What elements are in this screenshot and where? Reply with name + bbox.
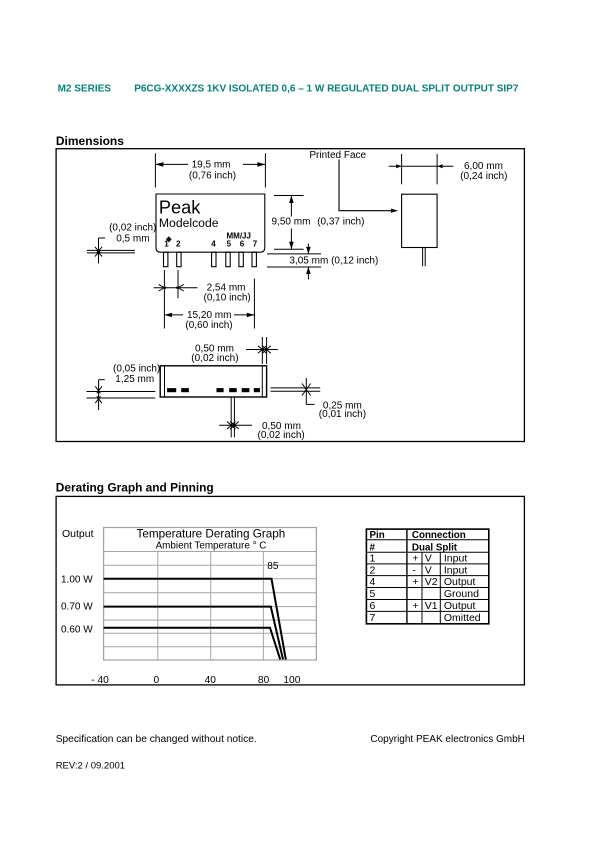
- dim 0,25mm: [271, 378, 321, 404]
- dim 0,50mm top (pin width): [246, 337, 278, 364]
- svg-text:(0,02 inch): (0,02 inch): [109, 223, 156, 234]
- dim 1,25mm: [87, 380, 156, 410]
- pin numbers: [164, 240, 258, 249]
- svg-text:0,5 mm: 0,5 mm: [116, 234, 149, 245]
- svg-text:V2: V2: [425, 576, 438, 588]
- svg-text:4: 4: [211, 240, 216, 249]
- pin 1 top view: [164, 252, 168, 267]
- svg-text:3,05 mm (0,12 inch): 3,05 mm (0,12 inch): [289, 255, 378, 266]
- side view body: [402, 194, 438, 247]
- svg-text:P6CG-XXXXZS: P6CG-XXXXZS: [134, 83, 204, 94]
- pin 4 top view: [212, 252, 216, 267]
- pin1 marker diamond: [166, 236, 172, 242]
- derating outline box: [56, 496, 524, 685]
- svg-text:1KV ISOLATED 0,6 – 1 W REGULAT: 1KV ISOLATED 0,6 – 1 W REGULATED DUAL SP…: [207, 83, 519, 94]
- svg-text:6: 6: [240, 240, 245, 249]
- package top-view outline: [156, 194, 265, 252]
- table row lines: [366, 539, 488, 541]
- svg-text:80: 80: [258, 675, 270, 686]
- dim 15,20mm: [164, 279, 254, 329]
- dim line segments: [155, 163, 188, 165]
- svg-text:(0,76 inch): (0,76 inch): [189, 170, 236, 181]
- pin 6 top view: [239, 252, 243, 267]
- svg-text:5: 5: [370, 588, 376, 600]
- svg-text:Output: Output: [62, 528, 94, 540]
- svg-text:(0,02 inch): (0,02 inch): [258, 430, 305, 441]
- svg-text:6: 6: [370, 600, 376, 612]
- svg-text:Ground: Ground: [444, 588, 479, 600]
- table column line voltage: [439, 552, 441, 624]
- svg-text:+: +: [412, 600, 418, 612]
- svg-text:100: 100: [283, 675, 300, 686]
- svg-text:Derating Graph and Pinning: Derating Graph and Pinning: [56, 481, 214, 495]
- svg-text:Connection: Connection: [412, 530, 466, 541]
- x axis labels: [91, 675, 301, 686]
- table header texts: [370, 530, 466, 553]
- dim 9,50mm: [274, 196, 304, 250]
- svg-text:Dimensions: Dimensions: [56, 134, 124, 148]
- table data texts: [370, 553, 481, 625]
- svg-text:0.70 W: 0.70 W: [61, 602, 93, 613]
- svg-text:Input: Input: [444, 564, 467, 576]
- svg-text:1: 1: [370, 553, 376, 565]
- svg-text:Output: Output: [444, 600, 476, 612]
- dim 0,5mm standoff: [87, 238, 135, 264]
- svg-text:Modelcode: Modelcode: [159, 216, 219, 230]
- svg-text:1,25 mm: 1,25 mm: [115, 374, 154, 385]
- svg-text:85: 85: [267, 561, 279, 572]
- printed face leader: [339, 160, 392, 211]
- svg-text:Ambient Temperature ° C: Ambient Temperature ° C: [156, 541, 267, 552]
- plot border: [104, 528, 317, 661]
- svg-text:V: V: [425, 564, 432, 576]
- svg-text:V1: V1: [425, 600, 438, 612]
- pin 5 top view: [226, 252, 230, 267]
- svg-text:(0,01 inch): (0,01 inch): [319, 409, 366, 420]
- svg-text:0.60 W: 0.60 W: [61, 624, 93, 635]
- svg-text:V: V: [425, 553, 432, 565]
- svg-text:(0,37 inch): (0,37 inch): [317, 217, 364, 228]
- bottom view body: [160, 366, 266, 397]
- dimensions outline box: [56, 149, 524, 442]
- svg-text:7: 7: [253, 240, 258, 249]
- svg-text:Printed Face: Printed Face: [309, 150, 366, 161]
- pin 2 top view: [177, 252, 181, 267]
- svg-text:M2 SERIES: M2 SERIES: [58, 83, 112, 94]
- svg-text:- 40: - 40: [91, 675, 109, 686]
- svg-text:2: 2: [176, 240, 181, 249]
- derating curve 1.00W: [104, 579, 286, 660]
- table outer border: [366, 529, 488, 624]
- svg-text:REV:2 / 09.2001: REV:2 / 09.2001: [56, 761, 125, 772]
- dim 6,00mm: [389, 154, 454, 184]
- svg-text:7: 7: [370, 612, 376, 624]
- derating curve 0.60W: [104, 628, 281, 660]
- dim 19,5mm: extension lines: [155, 153, 265, 187]
- svg-text:19,5 mm: 19,5 mm: [192, 160, 231, 171]
- plot gridlines: [104, 552, 317, 661]
- table column line sign: [421, 552, 423, 624]
- svg-text:Peak: Peak: [159, 197, 201, 217]
- bottom view right pin edge: [261, 366, 263, 397]
- svg-text:+: +: [412, 553, 418, 565]
- bottom view pads: [167, 388, 260, 392]
- svg-text:(0,60 inch): (0,60 inch): [185, 320, 232, 331]
- svg-text:0: 0: [153, 675, 159, 686]
- svg-text:4: 4: [370, 576, 376, 588]
- dim 0,50mm bottom: [219, 397, 252, 437]
- svg-text:1: 1: [164, 240, 169, 249]
- svg-text:(0,02 inch): (0,02 inch): [191, 353, 238, 364]
- dim 3,05mm: [267, 244, 321, 280]
- 19,5 arrows: [155, 162, 163, 167]
- svg-text:40: 40: [205, 675, 217, 686]
- svg-text:5: 5: [227, 240, 232, 249]
- svg-text:Input: Input: [444, 553, 467, 565]
- svg-text:+: +: [412, 576, 418, 588]
- pin 7 top view: [252, 252, 256, 267]
- derating curve 0.70W: [104, 607, 283, 660]
- svg-text:Copyright PEAK electronics Gmb: Copyright PEAK electronics GmbH: [370, 734, 525, 745]
- bottom view left pin edge: [164, 366, 166, 397]
- dim 2,54mm: [154, 270, 198, 329]
- svg-text:(0,24 inch): (0,24 inch): [460, 171, 507, 182]
- svg-text:2: 2: [370, 564, 376, 576]
- svg-text:Output: Output: [444, 576, 476, 588]
- side view pin: [423, 248, 426, 267]
- svg-text:(0,10 inch): (0,10 inch): [204, 293, 251, 304]
- svg-text:Temperature Derating Graph: Temperature Derating Graph: [137, 527, 286, 540]
- svg-text:1.00 W: 1.00 W: [61, 575, 93, 586]
- table column line pin/connection: [406, 529, 408, 624]
- svg-text:Pin: Pin: [370, 530, 385, 541]
- svg-text:Specification can be changed w: Specification can be changed without not…: [56, 734, 257, 745]
- svg-text:9,50 mm: 9,50 mm: [272, 217, 311, 228]
- svg-text:Omitted: Omitted: [444, 612, 481, 624]
- title line: [58, 83, 519, 94]
- svg-text:-: -: [412, 564, 416, 576]
